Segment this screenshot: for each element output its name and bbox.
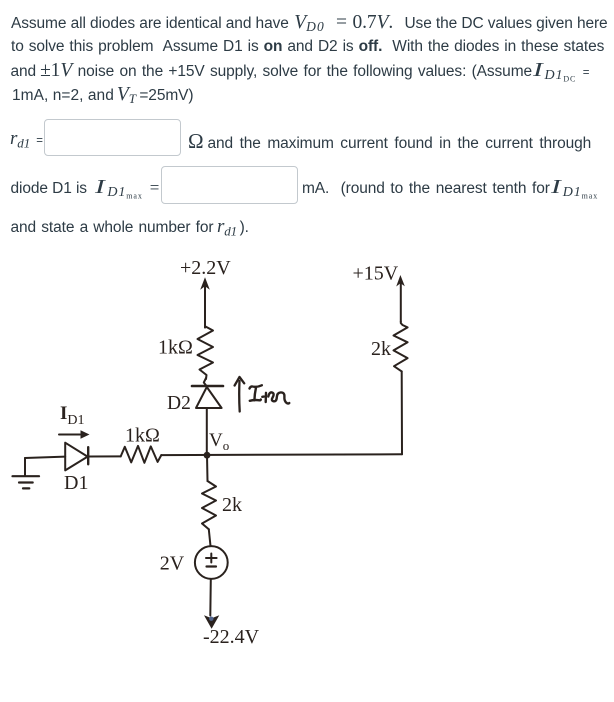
node Vo junction dot bbox=[204, 452, 211, 459]
svg-text:ID1: ID1 bbox=[60, 403, 85, 428]
circuit schematic (scanned figure) bbox=[0, 250, 470, 662]
wire D1 cathode to R2 bbox=[88, 455, 121, 457]
voltage source V1 2V (circle with plus-minus) bbox=[195, 546, 228, 579]
svg-text:1kΩ: 1kΩ bbox=[158, 337, 193, 359]
svg-text:+2.2V: +2.2V bbox=[180, 257, 231, 279]
answer row 1: r_d1 label bbox=[10, 131, 43, 149]
+2.2V supply arrow (wire up from R1) bbox=[200, 277, 210, 327]
+15V supply arrow (wire up from R3) bbox=[396, 275, 405, 321]
answer row 1 text bbox=[188, 133, 591, 152]
svg-text:2k: 2k bbox=[222, 494, 242, 516]
paragraph line 4 bbox=[12, 87, 193, 104]
svg-text:2k: 2k bbox=[371, 338, 391, 360]
wire D2 anode to node Vo bbox=[206, 408, 208, 455]
diode D2 cathode bar bbox=[192, 385, 223, 388]
current arrow I_D1 (right) bbox=[59, 430, 90, 438]
resistor R2 1kΩ (horizontal, series with D1) bbox=[121, 446, 162, 463]
answer row 3 bbox=[11, 219, 249, 236]
svg-text:2V: 2V bbox=[160, 553, 185, 575]
handwritten current arrow I_D2 (up) bbox=[235, 377, 245, 412]
ground symbol bbox=[13, 476, 40, 488]
resistor R1 1kΩ (top, +2.2V branch) bbox=[198, 327, 214, 380]
diode D2 triangle bbox=[196, 387, 222, 408]
svg-text:D1: D1 bbox=[64, 472, 88, 494]
wire R4 to source V1 bbox=[209, 529, 211, 546]
wire ground riser to D1 anode bbox=[25, 457, 65, 458]
resistor R3 2k (right, +15V branch) bbox=[394, 321, 408, 371]
resistor R4 2k (lower, to 2V source) bbox=[202, 481, 216, 529]
paragraph line 1 bbox=[11, 15, 608, 35]
input box 1 bbox=[44, 119, 181, 156]
svg-text:+15V: +15V bbox=[353, 263, 399, 285]
wire source V1 down to -22.4V arrow bbox=[209, 579, 212, 616]
svg-text:Vo: Vo bbox=[209, 430, 229, 453]
diode D1 cathode bar bbox=[87, 447, 89, 464]
wire R3 down to main wire corner bbox=[401, 371, 403, 454]
wire R2 to node Vo and on to right branch corner bbox=[161, 453, 402, 456]
svg-text:D2: D2 bbox=[167, 393, 191, 414]
svg-text:1kΩ: 1kΩ bbox=[125, 424, 160, 446]
paragraph line 2 bbox=[11, 39, 604, 55]
diode D1 triangle bbox=[65, 443, 87, 471]
paragraph line 3 bbox=[11, 63, 590, 81]
scan fleck inside arrowhead bbox=[209, 617, 213, 621]
wire down from main wire to ground bbox=[24, 458, 26, 476]
handwritten label I_D2 bbox=[250, 385, 290, 403]
input box 2 bbox=[161, 166, 298, 204]
answer row 2 bbox=[11, 180, 160, 197]
wire node Vo down to R4 bbox=[206, 455, 209, 481]
svg-text:-22.4V: -22.4V bbox=[203, 626, 260, 648]
wire R1 to D2 cathode bbox=[204, 378, 207, 386]
-22.4V supply arrow (down) bbox=[204, 615, 219, 629]
